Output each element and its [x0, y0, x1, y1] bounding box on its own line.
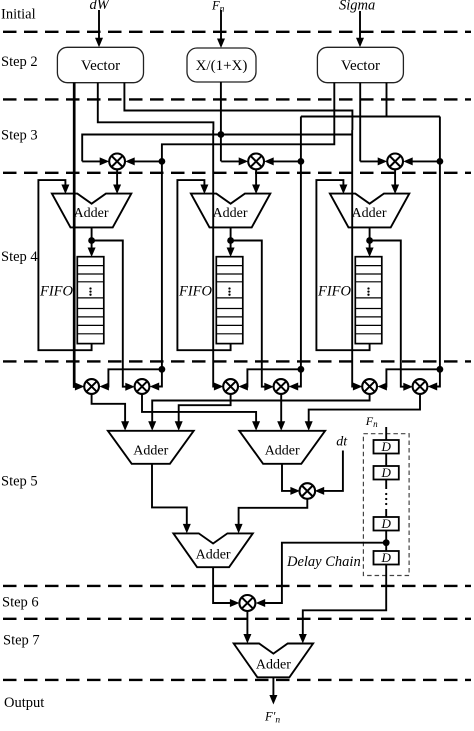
svg-text:Sigma: Sigma — [339, 0, 375, 14]
svg-text:Adder: Adder — [352, 206, 387, 221]
svg-text:Step 6: Step 6 — [2, 595, 39, 611]
svg-text:Vector: Vector — [81, 58, 120, 74]
svg-text:Step 4: Step 4 — [1, 249, 38, 265]
svg-text:FIFO: FIFO — [39, 284, 74, 300]
svg-text:D: D — [381, 465, 392, 480]
svg-text:Vector: Vector — [341, 58, 380, 74]
svg-text:Adder: Adder — [256, 658, 291, 673]
svg-text:Adder: Adder — [213, 206, 248, 221]
svg-text:D: D — [381, 550, 392, 565]
svg-text:Delay Chain: Delay Chain — [286, 554, 361, 570]
svg-text:Adder: Adder — [74, 206, 109, 221]
svg-text:Step 3: Step 3 — [1, 128, 38, 144]
svg-text:Output: Output — [4, 695, 44, 711]
svg-text:D: D — [381, 439, 392, 454]
svg-text:FIFO: FIFO — [317, 284, 352, 300]
svg-text:FIFO: FIFO — [178, 284, 213, 300]
svg-text:Step 5: Step 5 — [1, 474, 38, 490]
svg-text:D: D — [381, 516, 392, 531]
svg-text:Step 7: Step 7 — [3, 633, 40, 649]
svg-text:Initial: Initial — [1, 6, 36, 22]
svg-text:Adder: Adder — [196, 548, 231, 563]
svg-text:dW: dW — [90, 0, 111, 13]
svg-text:X/(1+X): X/(1+X) — [196, 58, 248, 74]
svg-text:Adder: Adder — [133, 444, 168, 459]
svg-text:dt: dt — [336, 435, 348, 450]
svg-text:Adder: Adder — [265, 444, 300, 459]
svg-text:Step 2: Step 2 — [1, 54, 38, 70]
